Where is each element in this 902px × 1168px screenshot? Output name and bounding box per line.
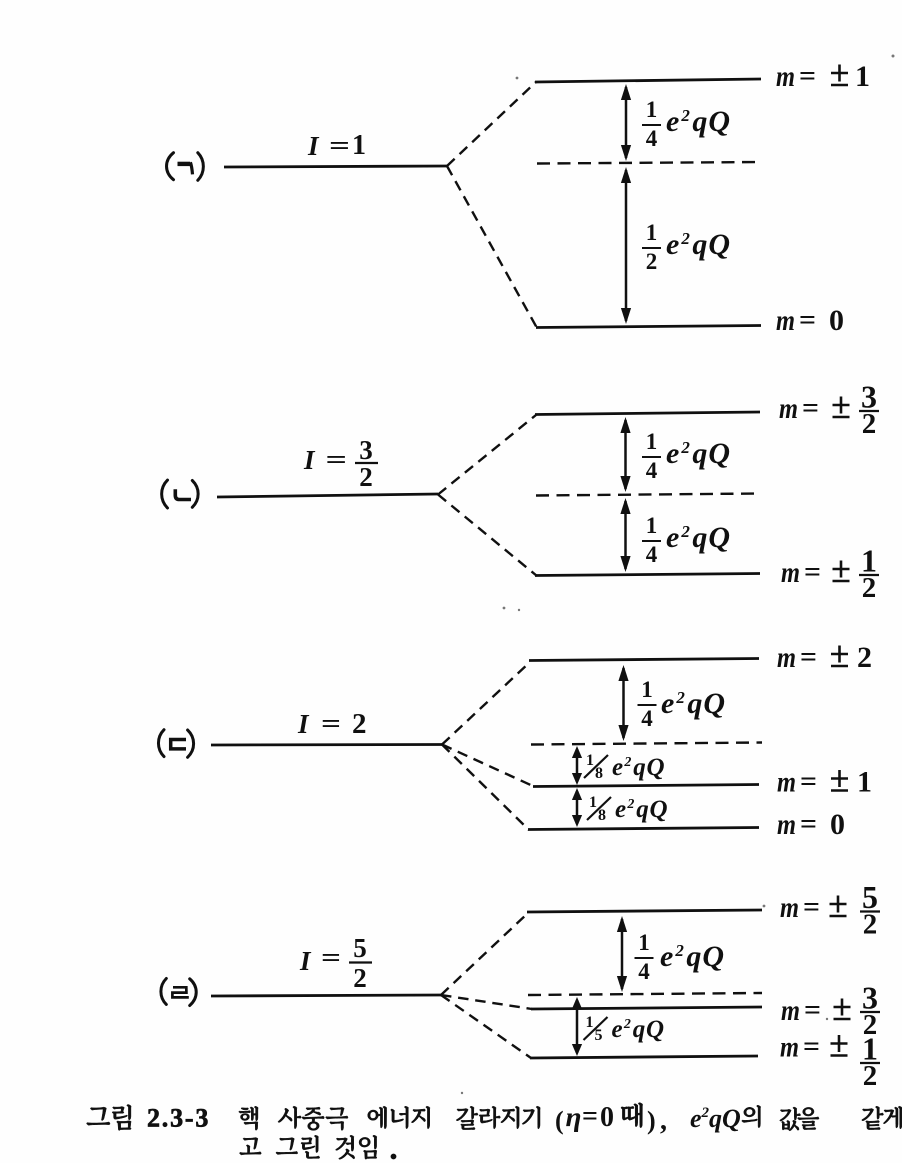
level line I=5/2 — [211, 995, 441, 996]
svg-text:3: 3 — [359, 435, 373, 465]
arrow 1/5 e2qQ (ㄹ) — [572, 997, 582, 1056]
arrow lower 1/4 e2qQ (ㄴ) — [620, 498, 630, 572]
caption word 같게 — [862, 1106, 902, 1129]
svg-text:5: 5 — [595, 1027, 603, 1044]
svg-text:=: = — [799, 305, 816, 336]
svg-text:0: 0 — [600, 1102, 614, 1133]
label (ㄹ) — [161, 979, 196, 1006]
split dashed lower (ㄱ) — [447, 166, 537, 328]
svg-text:4: 4 — [638, 959, 650, 984]
node label m=0 (ㄷ) — [777, 808, 845, 841]
svg-text:2.3-3: 2.3-3 — [147, 1104, 210, 1133]
svg-text:I: I — [307, 131, 320, 161]
level line I=1 — [224, 166, 447, 167]
node label m=±2 (ㄷ) — [777, 641, 872, 674]
svg-text:2: 2 — [863, 1060, 878, 1092]
svg-text:): ) — [647, 1106, 656, 1135]
speck dots — [461, 55, 895, 1095]
node label m=±1 (ㄱ) — [776, 60, 870, 93]
value label 1/5 e2qQ (ㄹ) — [584, 1014, 665, 1044]
svg-text:η: η — [566, 1102, 582, 1132]
svg-text:5: 5 — [353, 933, 367, 963]
value label 1/4 e2qQ (ㄹ) — [635, 930, 726, 984]
svg-text:1: 1 — [855, 60, 870, 93]
svg-text:=: = — [804, 557, 821, 588]
split dashed lower (ㄴ) — [438, 495, 537, 577]
level m=±1 (ㄷ) — [533, 785, 759, 787]
arrow 1/4 e2qQ (ㄷ) — [618, 665, 628, 741]
svg-text:1: 1 — [586, 752, 594, 769]
split dashed middle (ㄷ) — [442, 745, 534, 787]
level line I=2 — [211, 743, 442, 746]
svg-text:I: I — [297, 709, 310, 739]
svg-text:1: 1 — [641, 677, 653, 702]
svg-text:1: 1 — [589, 794, 597, 811]
svg-text:=: = — [799, 61, 816, 92]
svg-text:e2qQ: e2qQ — [690, 1104, 741, 1133]
svg-text:m: m — [781, 556, 800, 589]
node label m=±3/2 (ㄴ) — [779, 379, 879, 441]
svg-text:=: = — [804, 995, 821, 1026]
svg-text:1: 1 — [646, 429, 658, 454]
svg-text:e2qQ: e2qQ — [666, 521, 731, 554]
value label upper 1/4 e2qQ (ㄴ) — [642, 429, 731, 483]
value label I=3/2 — [303, 435, 378, 492]
svg-text:0: 0 — [829, 304, 844, 337]
svg-text:=: = — [803, 1032, 820, 1063]
value label I=5/2 — [299, 933, 372, 993]
caption line 2: 고 그린 것임. — [240, 1135, 397, 1159]
level m=±1/2 (ㄴ) — [535, 574, 760, 576]
node label m=±1/2 (ㄹ) — [780, 1031, 880, 1093]
svg-text:1: 1 — [646, 97, 658, 122]
split dashed middle (ㄹ) — [441, 995, 532, 1009]
svg-text:m: m — [781, 994, 800, 1027]
svg-text:8: 8 — [598, 807, 606, 824]
svg-text:2: 2 — [862, 408, 877, 440]
svg-text:=: = — [800, 642, 817, 673]
svg-text:=: = — [800, 767, 817, 798]
svg-text:,: , — [660, 1105, 667, 1136]
arrow 1/4 e2qQ (ㄹ) — [617, 916, 627, 992]
svg-text:m: m — [780, 891, 799, 924]
center dashed level (ㄹ) — [528, 993, 762, 995]
caption word 값을 — [780, 1107, 819, 1131]
split dashed upper (ㄱ) — [447, 82, 536, 166]
svg-text:e2qQ: e2qQ — [666, 437, 731, 470]
label (ㄴ) — [162, 480, 199, 508]
caption title 그림 — [87, 1105, 132, 1131]
svg-text:e2qQ: e2qQ — [666, 228, 731, 261]
svg-text:=: = — [582, 1101, 598, 1132]
svg-text:1: 1 — [638, 930, 650, 955]
value label I=1 — [307, 130, 366, 161]
svg-text:m: m — [780, 1031, 799, 1064]
svg-text:=: = — [803, 892, 820, 923]
level m=±2 (ㄷ) — [529, 659, 759, 661]
split dashed lower (ㄹ) — [441, 995, 531, 1058]
svg-text:I: I — [299, 946, 312, 976]
level m=±5/2 (ㄹ) — [527, 910, 762, 912]
split dashed lower (ㄷ) — [442, 745, 529, 831]
svg-text:=: = — [800, 809, 817, 840]
svg-text:e2qQ: e2qQ — [661, 687, 726, 720]
split dashed upper (ㄷ) — [442, 662, 530, 745]
svg-text:=: = — [321, 709, 341, 738]
svg-text:m: m — [779, 392, 798, 425]
arrow upper 1/8 e2qQ (ㄷ) — [572, 746, 582, 785]
node label m=0 (ㄱ) — [776, 304, 844, 337]
arrow lower 1/8 e2qQ (ㄷ) — [572, 788, 582, 827]
svg-text:2: 2 — [646, 249, 658, 274]
value label lower 1/8 e2qQ (ㄷ) — [587, 794, 668, 824]
svg-text:2: 2 — [857, 641, 872, 674]
svg-text:1: 1 — [646, 220, 658, 245]
caption word 핵 — [239, 1106, 258, 1130]
caption word 에너지 — [368, 1106, 430, 1129]
svg-text:0: 0 — [830, 808, 845, 841]
svg-text:2: 2 — [352, 708, 367, 740]
center dashed level (ㄷ) — [531, 743, 762, 745]
split dashed upper (ㄹ) — [441, 913, 528, 995]
svg-text:2: 2 — [863, 909, 878, 941]
svg-text:2: 2 — [353, 963, 367, 993]
value label 1/4 e2qQ (ㄱ) — [642, 97, 731, 151]
svg-text:8: 8 — [595, 765, 603, 782]
level line I=3/2 — [217, 494, 438, 497]
level m=±3/2 (ㄴ) — [535, 412, 760, 415]
arrow 1/4 e2qQ (ㄱ) — [621, 84, 631, 161]
svg-text:e2qQ: e2qQ — [660, 940, 725, 973]
svg-text:=: = — [326, 445, 348, 474]
caption word 갈라지기 — [456, 1106, 540, 1129]
node label m=±3/2 (ㄹ) — [781, 980, 880, 1042]
level m=0 (ㄷ) — [528, 828, 759, 830]
label (ㄱ) — [167, 153, 204, 181]
svg-text:(: ( — [555, 1106, 564, 1135]
center dashed level (ㄱ) — [537, 162, 761, 164]
svg-text:4: 4 — [641, 706, 653, 731]
value label upper 1/8 e2qQ (ㄷ) — [584, 752, 665, 782]
level m=0 (ㄱ) — [536, 326, 761, 328]
node label m=±5/2 (ㄹ) — [780, 879, 880, 941]
node label m=±1/2 (ㄴ) — [781, 543, 879, 605]
svg-text:4: 4 — [646, 542, 658, 567]
caption word 의 — [742, 1105, 761, 1127]
level m=±1 (ㄱ) — [535, 79, 761, 82]
value label 1/4 e2qQ (ㄷ) — [638, 677, 727, 731]
svg-text:m: m — [776, 304, 795, 337]
caption ), — [647, 1105, 667, 1136]
svg-text:2: 2 — [359, 462, 373, 492]
svg-text:e2qQ: e2qQ — [615, 796, 668, 823]
svg-text:m: m — [777, 641, 796, 674]
value label 1/2 e2qQ (ㄱ) — [642, 220, 731, 274]
caption word 사중극 — [278, 1106, 348, 1130]
svg-text:2: 2 — [862, 572, 877, 604]
caption (η=0 — [555, 1101, 614, 1135]
svg-text:m: m — [777, 766, 796, 799]
value label I=2 — [297, 708, 367, 740]
svg-text:m: m — [776, 60, 795, 93]
svg-text:e2qQ: e2qQ — [666, 105, 731, 138]
svg-text:e2qQ: e2qQ — [612, 1016, 665, 1043]
level m=±1/2 (ㄹ) — [530, 1056, 758, 1058]
arrow 1/2 e2qQ (ㄱ) — [621, 167, 631, 324]
node label m=±1 (ㄷ) — [777, 766, 872, 799]
svg-text:1: 1 — [352, 130, 366, 161]
split dashed upper (ㄴ) — [438, 415, 536, 495]
svg-text:I: I — [303, 445, 316, 475]
svg-text:m: m — [777, 808, 796, 841]
svg-text:4: 4 — [646, 458, 658, 483]
caption word 때 — [621, 1103, 643, 1128]
svg-text:=: = — [329, 131, 350, 160]
svg-text:1: 1 — [646, 513, 658, 538]
arrow upper 1/4 e2qQ (ㄴ) — [620, 417, 630, 492]
svg-text:1: 1 — [586, 1014, 594, 1031]
svg-text:1: 1 — [857, 766, 872, 799]
label (ㄷ) — [158, 730, 193, 758]
svg-text:=: = — [321, 943, 341, 972]
center dashed level (ㄴ) — [536, 494, 761, 496]
svg-text:e2qQ: e2qQ — [612, 754, 665, 781]
level m=±3/2 (ㄹ) — [531, 1007, 762, 1009]
svg-text:4: 4 — [646, 126, 658, 151]
value label lower 1/4 e2qQ (ㄴ) — [642, 513, 731, 567]
svg-text:=: = — [802, 393, 819, 424]
